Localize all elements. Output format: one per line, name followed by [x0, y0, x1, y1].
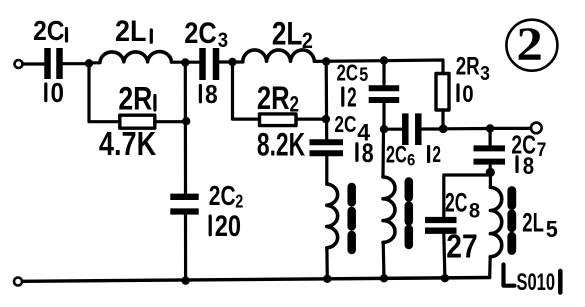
svg-text:2R: 2R	[456, 53, 480, 81]
wire node H to node K	[443, 127, 490, 131]
wire node E down to 2C5	[382, 61, 385, 85]
wire 2R1 to node F	[155, 120, 186, 123]
resistor 2R1	[120, 115, 155, 128]
svg-text:2C: 2C	[334, 111, 356, 137]
wire 2L1 to node B	[172, 61, 199, 64]
value 18 of 2C7	[517, 153, 534, 180]
label 2R3	[456, 53, 490, 86]
wire node A to 2L1	[89, 61, 100, 64]
wire 2C4 to coil L3	[325, 156, 328, 184]
label 2C3	[184, 17, 228, 52]
node F junction	[182, 117, 190, 125]
wire L4 to bottom rail	[382, 242, 386, 278]
label 2C1	[33, 15, 66, 46]
wire node M down to 2L5	[489, 172, 492, 187]
2L5 ferrite core dashes	[507, 191, 516, 251]
svg-text:7: 7	[537, 139, 547, 161]
rail junction at L4	[380, 274, 388, 282]
svg-text:6: 6	[407, 151, 415, 170]
capacitor 2C6 plates	[405, 113, 418, 145]
value 12 of 2C6	[429, 141, 441, 167]
value 10 of 2R3	[458, 81, 474, 108]
inductor 2L2	[243, 50, 315, 61]
label 2C2	[209, 180, 243, 211]
resistor 2R3	[436, 74, 449, 111]
capacitor 2C2 plates	[170, 197, 198, 212]
svg-text:2C: 2C	[445, 187, 467, 217]
wire 2L5 to bottom rail corner	[488, 257, 492, 278]
svg-text:2: 2	[302, 28, 313, 53]
svg-text:0: 0	[51, 77, 65, 108]
node K junction	[486, 124, 494, 132]
node J junction	[380, 125, 388, 133]
wire 2C5 to node J	[382, 104, 385, 130]
inductor L4 coil	[383, 177, 395, 242]
svg-text:2C: 2C	[33, 15, 65, 46]
inductor 2L5 coil	[490, 187, 501, 256]
svg-text:2: 2	[432, 141, 441, 167]
svg-text:2C: 2C	[386, 141, 407, 168]
inductor 2L1	[100, 52, 172, 62]
wire input to 2C1	[24, 62, 45, 65]
wire L3 to bottom rail	[325, 248, 329, 279]
part number LS010	[504, 265, 561, 297]
svg-text:3: 3	[480, 62, 490, 85]
node N junction on rail	[441, 274, 449, 282]
svg-text:2R: 2R	[257, 80, 290, 116]
inductor L3 coil	[327, 184, 338, 248]
wire 2R3 to node H	[441, 110, 444, 129]
svg-text:2R: 2R	[118, 80, 152, 116]
wire 2C7 to node M	[489, 166, 492, 173]
capacitor 2C3 plates	[203, 48, 217, 80]
wire node J to 2C6	[384, 128, 402, 131]
node C junction	[228, 58, 236, 66]
svg-text:2L: 2L	[115, 15, 147, 48]
wire 2L2 to corner above 2R3	[314, 60, 443, 74]
value 12 of 2C5	[343, 82, 357, 113]
node E junction	[380, 56, 388, 64]
value 18 of 2C4	[357, 138, 374, 168]
wire 2R2 to node G	[296, 117, 326, 120]
svg-text:8.2K: 8.2K	[257, 127, 306, 163]
rail junction at 2C2	[181, 276, 189, 284]
node B junction	[181, 58, 189, 66]
capacitor 2C8 plates	[425, 220, 457, 231]
label 2C6	[386, 141, 415, 169]
label 2C7	[511, 130, 546, 161]
label 2C4	[334, 111, 370, 146]
wire node J down to coil L4	[381, 129, 385, 177]
node M junction	[486, 168, 495, 177]
svg-text:2: 2	[516, 18, 543, 71]
label 2R2	[257, 80, 299, 117]
wire node K to output terminal	[490, 127, 530, 130]
svg-text:S010: S010	[517, 269, 556, 296]
node H junction	[439, 124, 448, 133]
value 120 of 2C2	[210, 210, 241, 243]
svg-text:5: 5	[359, 64, 368, 86]
bottom rail wire	[23, 278, 490, 282]
wire 2C8 to bottom rail	[444, 234, 445, 278]
ground terminal (bottom left)	[14, 278, 22, 286]
node G junction	[322, 115, 330, 123]
svg-text:27: 27	[446, 228, 477, 265]
svg-text:5: 5	[546, 216, 558, 242]
capacitor 2C4 plates	[310, 142, 344, 153]
wire 2C2 to bottom rail	[184, 215, 187, 280]
svg-text:20: 20	[215, 210, 241, 243]
figure number circled 2	[506, 18, 557, 71]
svg-text:2C: 2C	[209, 180, 236, 211]
svg-text:2L: 2L	[272, 15, 303, 51]
wire node C down to 2R2	[233, 62, 260, 119]
label 2R1	[118, 80, 154, 116]
svg-text:4.7K: 4.7K	[99, 125, 156, 162]
svg-text:2: 2	[235, 192, 243, 212]
output terminal	[531, 123, 542, 134]
label 2C8	[445, 187, 480, 222]
svg-text:2L: 2L	[522, 208, 544, 238]
svg-text:3: 3	[218, 29, 228, 52]
capacitor 2C5 plates	[369, 88, 400, 100]
capacitor 2C1 plates	[48, 48, 60, 79]
node D junction	[322, 57, 330, 65]
wire node K down to 2C7	[489, 129, 492, 145]
label 2L2	[272, 15, 313, 53]
svg-text:8: 8	[205, 81, 218, 109]
label 2L5	[522, 208, 558, 243]
L4 ferrite core dashes	[405, 182, 414, 246]
wire node A down to 2R1	[89, 63, 120, 121]
label 2L1	[115, 15, 151, 48]
wire node M left to 2C8 branch	[444, 175, 488, 217]
svg-text:2: 2	[347, 82, 357, 113]
value 18 of 2C3	[200, 81, 217, 109]
wire node D down to 2C4	[325, 62, 329, 140]
capacitor 2C7 plates	[474, 148, 506, 161]
wire 2C6 to node H	[422, 127, 443, 130]
svg-text:8: 8	[523, 153, 534, 180]
value 10 of 2C1	[46, 77, 64, 108]
wire node B down to 2C2	[184, 63, 187, 194]
wire 2C3 to node C	[220, 60, 244, 63]
input terminal (top left)	[15, 60, 23, 68]
svg-text:8: 8	[469, 199, 480, 223]
L3 ferrite core dashes	[347, 187, 356, 250]
resistor 2R2	[260, 114, 297, 126]
label 2C5	[337, 60, 369, 86]
svg-text:8: 8	[362, 138, 374, 168]
svg-text:0: 0	[462, 81, 473, 108]
rail junction at L3	[323, 275, 331, 283]
node A junction	[85, 59, 93, 67]
svg-text:2C: 2C	[184, 17, 217, 50]
svg-text:2: 2	[290, 92, 300, 117]
wire 2C1 to node A	[64, 62, 90, 65]
